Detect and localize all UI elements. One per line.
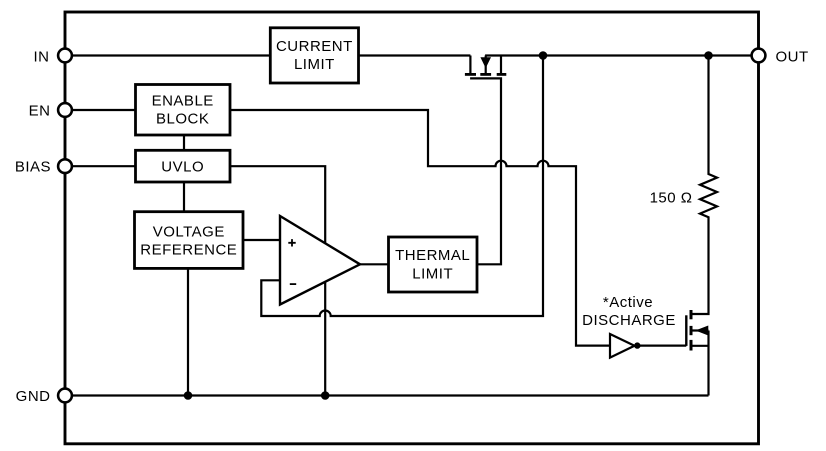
block UVLO xyxy=(136,150,231,182)
pin GND xyxy=(58,389,72,403)
svg-text:LIMIT: LIMIT xyxy=(294,56,335,73)
svg-text:THERMAL: THERMAL xyxy=(395,247,470,264)
wire VOLTAGE REFERENCE to GND rail xyxy=(187,268,189,395)
transistor Q2 body wire xyxy=(691,329,709,331)
transistor Q1 drain contact bar xyxy=(497,73,507,76)
transistor Q1 body diode arrow xyxy=(481,58,490,67)
wire op-amp minus input feedback to output sense (with hop) xyxy=(261,56,543,317)
wire CURRENT LIMIT to pass FET source xyxy=(359,54,471,56)
svg-text:*Active: *Active xyxy=(603,294,653,311)
svg-text:VOLTAGE: VOLTAGE xyxy=(153,223,225,240)
inverter output junction dot xyxy=(634,342,640,348)
block VOLTAGE REFERENCE xyxy=(135,212,244,269)
svg-text:EN: EN xyxy=(29,103,51,120)
transistor Q2 body arrow xyxy=(697,326,708,335)
transistor Q1 source contact bar xyxy=(465,73,476,76)
wire output top rail to OUT pin xyxy=(485,54,758,56)
block THERMAL LIMIT xyxy=(389,237,478,292)
pin OUT xyxy=(752,49,766,63)
wire ENABLE BLOCK to inverter (with hops) xyxy=(230,110,610,346)
svg-text:GND: GND xyxy=(16,388,51,405)
transistor Q2 discharge NMOS gate bar xyxy=(685,315,687,346)
pin EN xyxy=(58,103,72,117)
transistor Q1 pass PMOS source drop xyxy=(469,56,471,75)
svg-text:ENABLE: ENABLE xyxy=(152,92,214,109)
wire GND rail xyxy=(65,394,709,396)
node vref-gnd junction xyxy=(184,391,193,400)
wire BIAS pin to UVLO xyxy=(65,165,136,167)
svg-text:IN: IN xyxy=(34,48,50,65)
inverter U2 active discharge driver xyxy=(610,334,635,358)
svg-text:OUT: OUT xyxy=(776,48,809,65)
wire VOLTAGE REFERENCE to op-amp + input xyxy=(243,239,280,241)
resistor R1 150 ohm with drain connection xyxy=(691,56,717,315)
pin BIAS xyxy=(58,159,72,173)
transistor Q2 source/body down to GND rail xyxy=(707,331,709,396)
block CURRENT LIMIT xyxy=(270,28,358,83)
op-amp plus input marker xyxy=(288,239,295,246)
transistor Q2 source wire xyxy=(691,345,709,347)
wire UVLO output down through op-amp to GND rail xyxy=(230,166,325,395)
transistor Q2 channel bar bottom xyxy=(690,340,693,351)
node uvlo-gnd junction xyxy=(321,391,330,400)
svg-text:LIMIT: LIMIT xyxy=(412,265,453,282)
transistor Q2 channel bar top xyxy=(690,310,693,319)
svg-text:BLOCK: BLOCK xyxy=(156,111,209,128)
wire EN pin to ENABLE BLOCK xyxy=(65,109,136,111)
op-amp U1 error amplifier xyxy=(280,216,360,305)
svg-text:UVLO: UVLO xyxy=(161,159,204,176)
wire UVLO to VOLTAGE REFERENCE xyxy=(183,182,185,212)
svg-text:REFERENCE: REFERENCE xyxy=(140,242,237,259)
svg-text:CURRENT: CURRENT xyxy=(276,38,353,55)
node resistor junction xyxy=(704,51,713,60)
transistor Q1 drain riser xyxy=(500,56,502,75)
wire IN pin to CURRENT LIMIT xyxy=(65,54,270,56)
svg-text:150 Ω: 150 Ω xyxy=(650,190,693,207)
transistor Q1 gate line down to thermal-limit wire xyxy=(470,78,501,264)
op-amp minus input marker xyxy=(290,283,296,285)
wire inverter output to Q2 gate xyxy=(635,345,687,347)
pin IN xyxy=(58,49,72,63)
wire op-amp output to THERMAL LIMIT xyxy=(360,263,389,265)
transistor Q2 channel bar middle xyxy=(690,326,693,335)
svg-text:DISCHARGE: DISCHARGE xyxy=(582,312,676,329)
node output sense junction xyxy=(539,51,548,60)
transistor Q1 body stem xyxy=(485,56,487,75)
wire ENABLE BLOCK to UVLO xyxy=(183,135,185,150)
transistor Q1 body contact bar xyxy=(480,73,491,76)
block ENABLE BLOCK xyxy=(136,85,231,136)
svg-text:BIAS: BIAS xyxy=(15,159,51,176)
